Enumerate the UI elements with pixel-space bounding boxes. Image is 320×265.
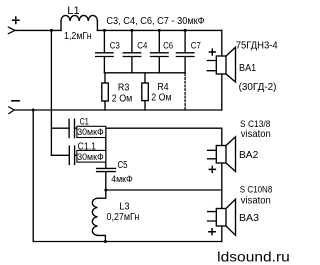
svg-text:visaton: visaton [241,129,271,140]
svg-text:R3: R3 [118,83,130,94]
dotted wire from capacitor bus to minus bus [184,74,186,110]
node junction top rail to C1 feed [50,29,53,32]
svg-text:30мкФ: 30мкФ [77,127,104,137]
svg-text:BA1: BA1 [239,63,256,74]
svg-text:ldsound.ru: ldsound.ru [217,249,290,265]
svg-text:1,2мГн: 1,2мГн [64,31,92,42]
loudspeaker BA3 [208,199,236,235]
capacitor C1 [51,119,221,137]
loudspeaker BA1 [207,47,235,82]
svg-text:75ГДН3-4: 75ГДН3-4 [236,40,279,51]
node junction B [104,189,107,192]
wire BA3 top lead [221,190,223,209]
inductor L1 [61,15,97,30]
wire BA2 bottom lead [221,163,223,190]
svg-text:C7: C7 [191,41,201,52]
inductor L3 [92,190,105,242]
svg-text:L1: L1 [67,5,79,17]
resistor R4 [142,73,149,110]
wire minus bus [14,109,222,111]
input terminal minus [9,101,19,114]
svg-text:C5: C5 [118,160,128,171]
wire left drop from minus junction to bottom rail [32,110,34,242]
value box C1 30uF [77,126,106,137]
svg-text:BA3: BA3 [239,213,259,224]
value box C1.1 30uF [77,150,106,162]
wire from node A down corner to BA2 [221,128,223,145]
wire bottom bus of capacitor bank [104,72,185,74]
svg-text:BA2: BA2 [239,150,259,161]
wire bottom rail [33,241,222,243]
node junction minus bus to bottom rail [32,109,35,112]
svg-text:(30ГД-2): (30ГД-2) [239,82,277,93]
capacitor C3 [96,29,113,73]
svg-text:2 Ом: 2 Ом [151,92,171,103]
capacitor C1.1 [51,146,105,165]
svg-text:R4: R4 [157,82,169,93]
svg-text:visaton: visaton [241,195,271,206]
node junction L3 to bottom rail [104,240,107,243]
wire top rail from plus input to L1 [15,29,61,31]
wire node B bus [106,189,222,191]
capacitor C4 [123,29,141,73]
input terminal plus [8,17,19,34]
wire BA3 bottom lead [221,226,223,242]
svg-text:C1.1: C1.1 [78,141,97,152]
resistor R3 [102,73,109,110]
svg-text:4мкФ: 4мкФ [111,174,133,185]
wire node A vertical joining C1 C1.1 [105,128,107,168]
capacitor C5 [97,168,116,171]
svg-text:C6: C6 [163,41,173,52]
wire BA1 top lead [221,30,223,56]
svg-text:C4: C4 [137,41,148,52]
svg-text:S C13/8: S C13/8 [240,118,270,129]
svg-text:2 Ом: 2 Ом [112,93,133,104]
wire from C5 down to node B [105,172,107,190]
wire BA1 bottom lead [221,74,223,110]
svg-text:30мкФ: 30мкФ [77,152,104,162]
svg-text:C3, C4, C6, C7 - 30мкФ: C3, C4, C6, C7 - 30мкФ [106,16,204,27]
wire vertical feed to C1 and C1.1 [50,30,52,155]
svg-text:C1: C1 [80,116,89,127]
svg-text:S C10N8: S C10N8 [240,184,272,195]
loudspeaker BA2 [208,137,236,173]
capacitor C7 [176,29,194,73]
svg-text:C3: C3 [110,41,120,52]
svg-text:0,27мГн: 0,27мГн [107,212,140,223]
capacitor C6 [151,29,169,73]
wire top bus from L1 to BA1 [97,29,221,31]
